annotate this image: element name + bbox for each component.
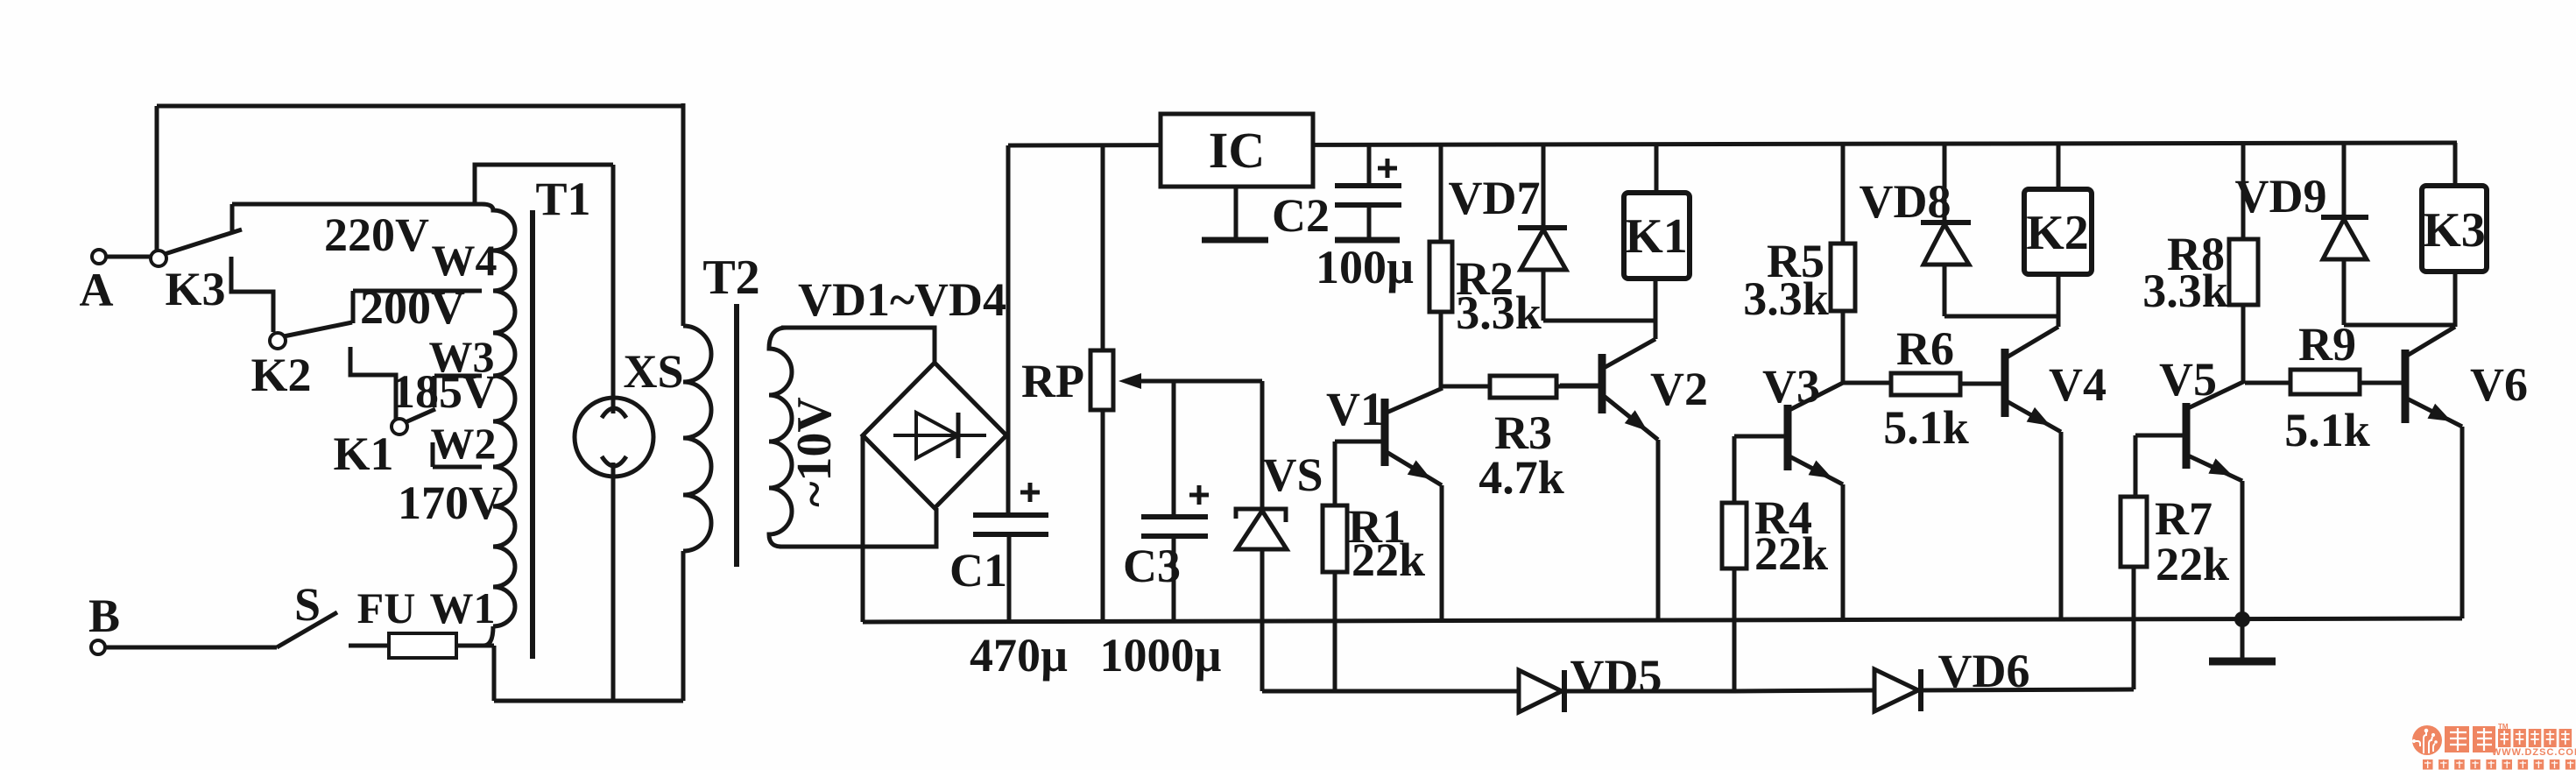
wire R8 from top rail <box>2241 143 2246 239</box>
svg-text:V4: V4 <box>2049 358 2107 411</box>
resistor R8 <box>2229 239 2258 381</box>
terminal B <box>88 590 120 654</box>
potentiometer RP <box>1090 350 1113 621</box>
wire V2 emitter to ground rail <box>1656 440 1661 620</box>
transistor V1 base bar <box>1381 399 1389 466</box>
relay contact K2 blade <box>284 322 352 336</box>
label R1 <box>1348 500 1406 553</box>
transistor V4 base bar <box>2001 349 2009 417</box>
label 22k value of R1 <box>1352 533 1425 586</box>
relay contact K1 pivot <box>392 419 407 434</box>
svg-text:R7: R7 <box>2155 492 2213 545</box>
fuse FU <box>389 633 494 658</box>
label VD1~VD4 <box>798 273 1006 326</box>
wire K2 coil from top rail <box>2057 143 2061 189</box>
wire K3 lower contact to K2 <box>231 257 273 332</box>
bridge rectifier VD1-VD4 body <box>863 363 1006 508</box>
label R4 <box>1754 491 1812 544</box>
transformer T1 core <box>530 210 535 659</box>
wire V1 emitter to ground rail <box>1440 485 1444 620</box>
svg-text:3.3k: 3.3k <box>2142 265 2228 317</box>
wire R5 from top rail <box>1841 144 1846 244</box>
IC block <box>1161 114 1313 187</box>
svg-text:VD6: VD6 <box>1938 645 2030 697</box>
label VD9 <box>2235 170 2327 223</box>
wire V6 emitter to ground rail <box>2460 427 2465 618</box>
resistor R2 <box>1429 242 1452 388</box>
svg-text:VS: VS <box>1262 449 1323 501</box>
wire 185V tap <box>434 374 482 378</box>
resistor R1 <box>1323 505 1347 693</box>
label V3 <box>1762 360 1820 413</box>
svg-text:W2: W2 <box>431 419 497 468</box>
switch S blade <box>277 612 337 647</box>
node 220V contact stub <box>230 204 235 234</box>
svg-text:3.3k: 3.3k <box>1743 272 1829 325</box>
capacitor C3 <box>1141 485 1209 621</box>
svg-text:K3: K3 <box>2423 203 2486 258</box>
transistor V4 collector <box>2007 327 2058 357</box>
resistor R9 <box>2245 370 2360 394</box>
svg-text:K2: K2 <box>2026 206 2089 260</box>
wire K2 coil bottom to V4 collector <box>2057 274 2061 327</box>
svg-text:T2: T2 <box>702 251 759 305</box>
transistor V5 collector <box>2188 381 2245 408</box>
svg-text:B: B <box>88 590 120 642</box>
label 470µ value of C1 <box>970 629 1068 682</box>
label R8 <box>2167 228 2225 280</box>
relay coil K3 <box>2422 186 2487 272</box>
label ~10V <box>787 397 842 507</box>
label W2 <box>431 419 497 468</box>
transistor V2 collector <box>1604 339 1655 368</box>
relay contact K3 label <box>165 263 225 315</box>
wire V1 base to R1 <box>1333 442 1337 505</box>
label VS <box>1262 449 1323 501</box>
svg-text:4.7k: 4.7k <box>1479 451 1564 504</box>
wire A to K3 pivot <box>106 255 151 259</box>
wire K3 coil from top rail <box>2453 143 2458 186</box>
label 22k value of R7 <box>2156 538 2229 590</box>
capacitor C2 <box>1335 159 1401 240</box>
label 1000µ value of C3 <box>1099 629 1221 682</box>
svg-text:VD7: VD7 <box>1449 172 1541 224</box>
transistor V3 emitter <box>1789 456 1843 484</box>
wire 200V tap <box>353 289 482 293</box>
resistor R5 <box>1831 244 1855 383</box>
transistor V5 emitter <box>2188 456 2242 481</box>
label 200V <box>360 281 465 334</box>
transformer T2 core <box>734 304 739 567</box>
wire VD8 anode to K2 coil bottom <box>1944 314 2058 319</box>
svg-text:470µ: 470µ <box>970 629 1068 682</box>
label VD6 <box>1938 645 2030 697</box>
positive top rail <box>1008 143 2457 145</box>
svg-text:100µ: 100µ <box>1316 241 1414 293</box>
node 200V contact stub <box>351 291 356 323</box>
wire K2 lower contact to K1 <box>350 347 396 419</box>
ground symbol <box>2209 619 2276 661</box>
diode VD8 <box>1921 144 1971 316</box>
watermark dzsc logo <box>2412 723 2576 770</box>
label FU <box>357 583 416 632</box>
node 170V contact stub <box>431 442 435 467</box>
svg-text:VD1~VD4: VD1~VD4 <box>798 273 1006 326</box>
relay contact K1 label <box>333 427 393 480</box>
wire V4 emitter to ground rail <box>2059 432 2064 619</box>
transistor V6 collector <box>2407 327 2455 356</box>
label C3 <box>1123 540 1181 592</box>
svg-text:RP: RP <box>1021 355 1084 407</box>
svg-text:W4: W4 <box>432 236 498 285</box>
label 4.7k value of R3 <box>1479 451 1564 504</box>
label C2 <box>1272 189 1330 242</box>
svg-text:K2: K2 <box>251 349 311 401</box>
diode VD6 <box>1874 669 2134 711</box>
transistor V2 base lead <box>1560 384 1602 388</box>
label W3 <box>429 332 495 381</box>
transistor V2 base bar <box>1599 354 1606 413</box>
socket XS bottom prong <box>602 456 626 466</box>
label R3 <box>1494 406 1552 459</box>
wire K1 coil from top rail <box>1655 144 1659 192</box>
label V4 <box>2049 358 2107 411</box>
wire K3 coil bottom to V6 collector <box>2453 272 2458 327</box>
label W4 <box>432 236 498 285</box>
transistor V5 base bar <box>2183 403 2191 469</box>
relay contact K2 pivot <box>270 333 286 349</box>
transistor V1 emitter <box>1387 452 1442 485</box>
junction dot V5 emitter / ground <box>2234 611 2250 627</box>
svg-text:V5: V5 <box>2159 353 2217 406</box>
wire C3 tap from wiper <box>1172 381 1176 517</box>
label 3.3k value of R2 <box>1456 286 1542 339</box>
label 3.3k value of R5 <box>1743 272 1829 325</box>
wire T1 winding bottom to fuse wire <box>483 626 493 646</box>
wire T2 secondary top to bridge AC1 <box>781 328 935 363</box>
transistor V3 base bar <box>1784 405 1792 470</box>
socket XS vertical top <box>611 165 616 413</box>
label R9 <box>2298 318 2356 371</box>
wire 220V tap <box>232 202 482 207</box>
label VD5 <box>1570 650 1662 703</box>
label V1 <box>1326 383 1384 435</box>
svg-text:5.1k: 5.1k <box>2284 404 2370 456</box>
label V5 <box>2159 353 2217 406</box>
label R6 <box>1896 322 1954 375</box>
svg-text:A: A <box>80 264 114 316</box>
socket XS vertical bottom <box>611 463 616 701</box>
svg-text:R9: R9 <box>2298 318 2356 371</box>
transistor V3 collector <box>1789 383 1843 410</box>
label RP <box>1021 355 1084 407</box>
svg-text:VD8: VD8 <box>1860 175 1951 228</box>
wire V3 emitter to ground rail <box>1841 484 1846 619</box>
label R7 <box>2155 492 2213 545</box>
svg-text:V2: V2 <box>1650 363 1708 415</box>
svg-text:200V: 200V <box>360 281 465 334</box>
svg-text:R6: R6 <box>1896 322 1954 375</box>
label T1 <box>535 173 590 225</box>
wire vertical from top line down to K3 pivot <box>155 106 159 251</box>
label R2 <box>1456 252 1514 305</box>
wire bottom rail XS/T2 <box>494 699 683 703</box>
label S <box>294 578 321 631</box>
wire bus VD5 to VD6 / R4 junction <box>1734 690 1874 691</box>
wire V3 base to R4 <box>1733 436 1737 503</box>
resistor R3 <box>1443 376 1602 398</box>
IC ground pin <box>1202 187 1268 240</box>
ground rail (main negative bus) <box>863 618 2462 622</box>
transformer T1 primary winding <box>482 204 515 626</box>
transistor V1 base lead <box>1335 440 1385 444</box>
label VD8 <box>1860 175 1951 228</box>
terminal A <box>80 250 114 316</box>
transistor V1 collector <box>1387 388 1443 413</box>
diode VD9 <box>2321 143 2368 325</box>
svg-text:WWW.DZSC.COM: WWW.DZSC.COM <box>2492 747 2576 758</box>
wire V5 base to R7 <box>2134 435 2138 497</box>
svg-text:1000µ: 1000µ <box>1099 629 1221 682</box>
wire R2 from top rail <box>1439 145 1443 242</box>
svg-text:220V: 220V <box>324 208 429 261</box>
label 170V <box>398 477 503 529</box>
svg-text:K1: K1 <box>333 427 393 480</box>
wire 170V tap <box>433 465 482 470</box>
svg-text:K3: K3 <box>165 263 225 315</box>
svg-text:170V: 170V <box>398 477 503 529</box>
transistor V6 base lead <box>2360 381 2405 385</box>
label 22k value of R4 <box>1754 527 1828 580</box>
label 5.1k value of R6 <box>1883 401 1969 454</box>
potentiometer RP wiper arrow <box>1119 373 1262 389</box>
wire VD9 anode to K3 coil bottom <box>2344 323 2455 328</box>
bridge rectifier inner diode <box>893 413 986 458</box>
wire VD7 anode to K1 coil bottom <box>1543 319 1655 323</box>
feedback bus from VS anode <box>1262 689 1519 694</box>
label 100µ value of C2 <box>1316 241 1414 293</box>
label 220V <box>324 208 429 261</box>
label XS <box>623 345 683 398</box>
zener diode VS <box>1236 381 1287 691</box>
label VD7 <box>1449 172 1541 224</box>
svg-text:22k: 22k <box>2156 538 2229 590</box>
wire B to switch S <box>105 646 277 650</box>
diode VD7 <box>1518 145 1567 321</box>
svg-text:V3: V3 <box>1762 360 1820 413</box>
wire T2 primary top lead <box>681 103 686 326</box>
capacitor C1 <box>973 483 1048 621</box>
wire C2 from top rail <box>1367 145 1372 186</box>
svg-text:T1: T1 <box>535 173 590 225</box>
wire K1 coil bottom to V2 collector <box>1654 278 1658 339</box>
transistor V2 emitter <box>1604 396 1658 440</box>
label 5.1k value of R9 <box>2284 404 2370 456</box>
resistor R4 <box>1722 503 1747 691</box>
wire W1 bottom down to bottom rail <box>492 646 497 701</box>
label 185V <box>392 365 497 418</box>
label V6 <box>2470 358 2528 411</box>
transistor V5 base lead <box>2135 434 2186 438</box>
transistor V3 base lead <box>1734 434 1788 439</box>
wire S to fuse <box>349 644 391 648</box>
wire bridge DC+ / C1 vertical <box>1006 145 1011 515</box>
diode VD5 <box>1519 670 1734 712</box>
svg-text:FU: FU <box>357 583 416 632</box>
wire RP from top rail <box>1101 145 1105 350</box>
socket XS top prong <box>602 408 626 418</box>
label W1 <box>430 583 496 632</box>
svg-text:22k: 22k <box>1754 527 1828 580</box>
svg-text:C1: C1 <box>949 544 1007 597</box>
relay coil K2 <box>2024 189 2092 274</box>
relay contact K1 blade <box>406 409 435 422</box>
svg-text:V6: V6 <box>2470 358 2528 411</box>
svg-text:5.1k: 5.1k <box>1883 401 1969 454</box>
transistor V4 base lead <box>1960 382 2005 386</box>
label V2 <box>1650 363 1708 415</box>
svg-text:C3: C3 <box>1123 540 1181 592</box>
transistor V4 emitter <box>2007 401 2061 432</box>
relay coil K1 <box>1624 193 1690 279</box>
label R5 <box>1767 235 1824 287</box>
wire T2 secondary bottom to bridge AC2 <box>781 508 936 547</box>
wire top horizontal A-line to T2 primary <box>157 104 683 109</box>
svg-text:22k: 22k <box>1352 533 1425 586</box>
svg-text:3.3k: 3.3k <box>1456 286 1542 339</box>
label C1 <box>949 544 1007 597</box>
label 3.3k value of R8 <box>2142 265 2228 317</box>
relay contact K3 blade <box>165 230 242 254</box>
svg-text:W3: W3 <box>429 332 495 381</box>
transformer T2 primary winding <box>683 326 711 551</box>
svg-text:W1: W1 <box>430 583 496 632</box>
svg-text:VD5: VD5 <box>1570 650 1662 703</box>
svg-text:VD9: VD9 <box>2235 170 2327 223</box>
wire T1 top to XS top <box>475 165 613 204</box>
resistor R6 <box>1843 373 2005 395</box>
svg-text:K1: K1 <box>1625 209 1688 264</box>
wire bridge DC- down to ground rail <box>861 435 865 622</box>
transformer T2 secondary winding <box>769 328 792 547</box>
svg-text:V1: V1 <box>1326 383 1384 435</box>
resistor R7 <box>2121 497 2147 689</box>
wire V5 emitter to ground rail <box>2241 481 2245 619</box>
svg-text:S: S <box>294 578 321 631</box>
svg-text:C2: C2 <box>1272 189 1330 242</box>
label T2 <box>702 251 759 305</box>
socket XS body <box>575 398 653 477</box>
transistor V6 base bar <box>2402 350 2410 423</box>
node 185V contact stub <box>433 376 437 407</box>
transistor V6 emitter <box>2407 399 2462 427</box>
svg-text:~10V: ~10V <box>787 397 842 507</box>
relay contact K3 pivot <box>151 251 166 266</box>
svg-text:IC: IC <box>1209 122 1265 179</box>
wire T2 primary bottom lead <box>681 551 686 701</box>
svg-text:XS: XS <box>623 345 683 398</box>
relay contact K2 label <box>251 349 311 401</box>
wire fuse to T1 bottom junction <box>456 644 494 648</box>
